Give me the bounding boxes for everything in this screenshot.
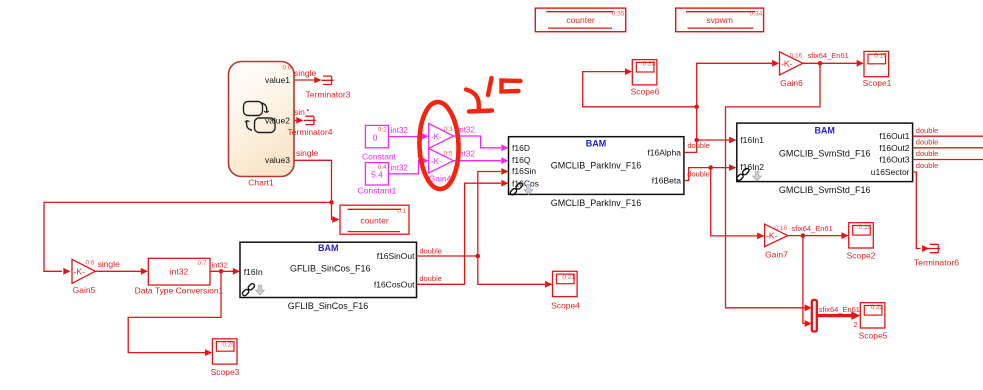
- svg-text:0:18: 0:18: [774, 225, 787, 232]
- svg-text:Scope5: Scope5: [859, 330, 888, 340]
- svg-text:double: double: [916, 161, 939, 170]
- svg-text:Terminator4: Terminator4: [288, 127, 333, 137]
- SvmStd gray down arrow: [753, 171, 762, 181]
- svg-text:-K-: -K-: [74, 267, 86, 277]
- svg-text:GMCLIB_ParkInv_F16: GMCLIB_ParkInv_F16: [551, 161, 642, 171]
- wire Gain7 net to Mux bottom: [803, 236, 812, 327]
- svg-text:double: double: [687, 169, 710, 178]
- svg-text:f16In: f16In: [244, 267, 263, 277]
- svg-text:BAM: BAM: [586, 139, 607, 149]
- svg-text:f16SinOut: f16SinOut: [377, 251, 415, 261]
- svg-text:0:0: 0:0: [282, 65, 291, 72]
- svg-text:Scope4: Scope4: [551, 300, 580, 310]
- wire f16Alpha net up to Gain6: [697, 60, 780, 140]
- svg-text:single: single: [294, 68, 316, 78]
- svg-text:0:21: 0:21: [562, 274, 575, 281]
- Chart1 state chart block: [229, 62, 295, 177]
- svg-text:Constant1: Constant1: [358, 186, 397, 196]
- signal type label sin (value2): [294, 107, 309, 117]
- svg-text:single: single: [98, 259, 120, 269]
- wire u16Sector to Terminator6: [913, 172, 930, 252]
- scope Scope6: [632, 60, 657, 85]
- svg-text:0:1: 0:1: [397, 208, 406, 215]
- terminator Terminator6: [928, 244, 940, 252]
- node junction f16SinOut net: [476, 254, 481, 259]
- svg-text:sfix64_En61: sfix64_En61: [792, 224, 833, 233]
- svg-text:0: 0: [373, 133, 378, 143]
- svg-text:double: double: [916, 126, 939, 135]
- svg-text:value1: value1: [265, 75, 290, 85]
- svg-text:int32: int32: [391, 126, 409, 135]
- gain Gain5: [72, 259, 95, 283]
- svg-text:sin: sin: [294, 107, 305, 117]
- svg-text:0:35: 0:35: [612, 10, 625, 17]
- node junction Gain6 out: [818, 61, 823, 66]
- subsystem svpwm: [676, 8, 764, 32]
- svg-text:0:6: 0:6: [85, 259, 94, 266]
- GFLIB chain link icon: [242, 283, 256, 297]
- wire Gain3 to f16D: [454, 136, 509, 151]
- svg-text:Gain5: Gain5: [73, 285, 96, 295]
- wire DTC to GFLIB f16In: [210, 268, 240, 275]
- svg-text:double: double: [419, 246, 442, 255]
- wire f16Alpha to f16In1: [684, 137, 736, 153]
- svg-text:GMCLIB_ParkInv_F16: GMCLIB_ParkInv_F16: [551, 198, 642, 208]
- svg-text:int32: int32: [458, 125, 476, 134]
- wire value3 down to junction: [294, 160, 332, 202]
- subsystem counter (lower): [340, 205, 409, 234]
- svg-text:-K-: -K-: [781, 58, 793, 68]
- scope Scope3: [212, 339, 237, 364]
- Chart1 state icon: [244, 102, 276, 133]
- svg-text:u16Sector: u16Sector: [871, 167, 910, 177]
- svg-text:0:4: 0:4: [378, 164, 387, 171]
- gain Gain3 (magenta upper): [429, 124, 454, 149]
- svg-text:f16Out3: f16Out3: [879, 155, 910, 165]
- svg-text:5.4: 5.4: [371, 170, 383, 180]
- svg-text:int32: int32: [212, 261, 228, 270]
- SvmStd chain link icon: [736, 168, 750, 182]
- svg-text:f16Out1: f16Out1: [879, 131, 910, 141]
- svg-text:sfix64_En61: sfix64_En61: [819, 305, 860, 314]
- node junction DTC out: [219, 269, 224, 274]
- svg-text:BAM: BAM: [814, 125, 835, 135]
- svg-text:Gain7: Gain7: [765, 250, 788, 260]
- svg-text:svpwm: svpwm: [706, 15, 732, 25]
- node junction f16Alpha net B: [694, 105, 699, 110]
- svg-text:Gain6: Gain6: [780, 78, 803, 88]
- annotation red ellipse (hand-drawn): [418, 101, 460, 189]
- svg-text:GFLIB_SinCos_F16: GFLIB_SinCos_F16: [288, 301, 369, 311]
- svg-text:int32: int32: [391, 163, 409, 172]
- svg-text:0:2: 0:2: [378, 127, 387, 134]
- svg-text:GMCLIB_SvmStd_F16: GMCLIB_SvmStd_F16: [779, 148, 871, 158]
- svg-text:Scope3: Scope3: [211, 367, 240, 377]
- svg-text:0:16: 0:16: [790, 52, 803, 59]
- scope Scope4: [553, 271, 578, 296]
- node junction f16Alpha net A: [694, 138, 699, 143]
- svg-text:f16Q: f16Q: [512, 155, 531, 165]
- constant Constant1: [365, 163, 388, 185]
- svg-text:0:22: 0:22: [871, 304, 884, 311]
- wire Constant1 to Gain4: [389, 157, 429, 174]
- gain Gain4 (magenta lower): [429, 149, 454, 174]
- svg-text:0:5: 0:5: [443, 151, 452, 158]
- node junction Gain7 out: [801, 233, 806, 238]
- wire f16SinOut to f16Sin: [417, 168, 509, 256]
- wire f16Out2: [913, 147, 983, 149]
- svg-text:value2: value2: [265, 115, 290, 125]
- svg-text:Scope1: Scope1: [863, 78, 892, 88]
- wire Gain5 to Data Type Conversion1: [95, 268, 148, 275]
- block GMCLIB_ParkInv_F16: [509, 137, 684, 195]
- svg-text:-K-: -K-: [431, 132, 442, 141]
- svg-text:value3: value3: [265, 155, 290, 165]
- wire value1 to Terminator3: [294, 77, 322, 84]
- wire f16Alpha net to Scope6: [583, 68, 697, 107]
- wire f16Out1: [913, 135, 983, 137]
- svg-text:0:3: 0:3: [443, 126, 452, 133]
- annotation handwritten 1 (with base): [466, 90, 492, 112]
- wire value3 net to counter input: [332, 202, 340, 223]
- svg-text:0:23: 0:23: [643, 61, 656, 68]
- svg-text:Constant: Constant: [362, 151, 397, 161]
- wire f16Beta to f16In2: [684, 164, 736, 180]
- mux Mux: [812, 300, 817, 332]
- svg-text:Scope6: Scope6: [631, 86, 660, 96]
- wire Gain6 to Scope1: [803, 60, 864, 67]
- wire Gain6 net to Mux top: [726, 63, 821, 311]
- svg-text:f16CosOut: f16CosOut: [374, 280, 415, 290]
- svg-text:Terminator6: Terminator6: [914, 257, 959, 267]
- block GMCLIB_SvmStd_F16: [737, 123, 913, 182]
- gain Gain6: [780, 52, 803, 75]
- svg-text:f16Alpha: f16Alpha: [647, 147, 681, 157]
- ParkInv chain link icon: [509, 182, 523, 196]
- annotation handwritten slash: [488, 78, 492, 95]
- svg-text:BAM: BAM: [318, 243, 339, 253]
- svg-text:f16In1: f16In1: [740, 135, 764, 145]
- wire Gain4 to f16Q: [454, 157, 509, 164]
- wire Constant to Gain3: [389, 133, 429, 140]
- svg-text:0:20: 0:20: [222, 341, 235, 348]
- svg-text:0:34: 0:34: [750, 10, 763, 17]
- wire f16SinOut net to Scope4: [478, 256, 553, 288]
- svg-text:2: 2: [854, 320, 858, 329]
- svg-text:counter: counter: [566, 15, 595, 25]
- constant Constant: [365, 125, 388, 147]
- svg-text:double: double: [916, 149, 939, 158]
- svg-text:0:7: 0:7: [197, 260, 206, 267]
- terminator Terminator4: [304, 116, 316, 124]
- svg-text:f16Out2: f16Out2: [879, 143, 910, 153]
- svg-text:double: double: [916, 137, 939, 146]
- svg-text:Chart1: Chart1: [248, 178, 274, 188]
- svg-text:0:19: 0:19: [859, 224, 872, 231]
- wire Mux to Scope5 (wide): [817, 311, 861, 320]
- wire f16CosOut to f16Cos: [417, 180, 509, 284]
- svg-text:counter: counter: [360, 215, 389, 225]
- svg-text:f16D: f16D: [512, 143, 530, 153]
- svg-text:sfix64_En61: sfix64_En61: [808, 51, 849, 60]
- svg-text:f16Sin: f16Sin: [512, 166, 536, 176]
- wire value3 net to Gain5: [44, 202, 332, 274]
- svg-text:int32: int32: [170, 267, 189, 277]
- scope Scope1: [864, 51, 889, 76]
- svg-text:-K-: -K-: [431, 157, 442, 166]
- block Data Type Conversion1: [148, 258, 210, 285]
- svg-text:double: double: [687, 141, 710, 150]
- svg-text:GMCLIB_SvmStd_F16: GMCLIB_SvmStd_F16: [779, 185, 871, 195]
- svg-text:GFLIB_SinCos_F16: GFLIB_SinCos_F16: [290, 264, 371, 274]
- wire f16Beta net to Gain7: [711, 168, 765, 240]
- GFLIB gray down arrow: [256, 285, 265, 295]
- wire f16Out3: [913, 159, 983, 161]
- wire DTC net to Scope3: [128, 271, 221, 356]
- svg-text:0:17: 0:17: [874, 52, 887, 59]
- wire value2 to Terminator4: [294, 117, 304, 124]
- subsystem counter (top): [535, 8, 625, 32]
- svg-text:Data Type Conversion1: Data Type Conversion1: [135, 286, 224, 296]
- wire Gain7 to Scope2: [788, 232, 849, 239]
- block GFLIB_SinCos_F16: [240, 242, 417, 297]
- svg-text:double: double: [419, 274, 442, 283]
- svg-text:f16Beta: f16Beta: [652, 176, 682, 186]
- svg-text:single: single: [296, 148, 318, 158]
- scope Scope5: [860, 303, 885, 328]
- annotation handwritten 5: [502, 81, 521, 92]
- scope Scope2: [849, 223, 874, 248]
- terminator Terminator3: [322, 76, 334, 84]
- svg-text:Terminator3: Terminator3: [306, 89, 351, 99]
- node junction f16Beta net: [708, 165, 713, 170]
- svg-text:Scope2: Scope2: [847, 250, 876, 260]
- gain Gain7: [765, 224, 788, 247]
- ParkInv gray down arrow: [524, 185, 533, 195]
- node junction value3 net: [329, 200, 334, 205]
